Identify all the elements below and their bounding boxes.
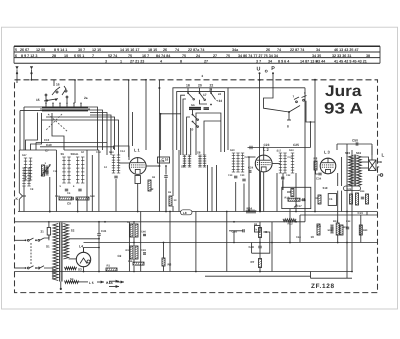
label C11 bbox=[53, 170, 58, 173]
svg-text:L 5: L 5 bbox=[89, 281, 94, 285]
svg-text:75: 75 bbox=[182, 54, 186, 58]
nested frame lower right 2 bbox=[140, 212, 142, 272]
wire x163 drop bbox=[163, 243, 165, 272]
svg-text:18 15: 18 15 bbox=[148, 48, 157, 52]
svg-text:8 9 7 12 3: 8 9 7 12 3 bbox=[21, 54, 37, 58]
resistor C15 bbox=[169, 196, 177, 206]
label C2 bbox=[118, 254, 122, 265]
coil S8 bbox=[197, 151, 202, 168]
resistor R27 box bbox=[282, 187, 311, 208]
svg-text:S5: S5 bbox=[61, 152, 65, 156]
wire x129 drop bbox=[128, 222, 130, 272]
wire left L-drop c bbox=[52, 113, 64, 150]
wire speaker top bbox=[362, 157, 369, 160]
svg-text:S10: S10 bbox=[230, 149, 235, 152]
svg-text:C45: C45 bbox=[101, 229, 107, 233]
resistor R18 pair bbox=[127, 221, 138, 237]
wire left col x49.8 bbox=[49, 177, 51, 212]
capacitor C45 bbox=[97, 221, 106, 272]
label 6 bbox=[73, 185, 75, 188]
svg-text:R1: R1 bbox=[107, 264, 111, 268]
svg-text:34 35: 34 35 bbox=[312, 54, 321, 58]
dot bus1 extra bbox=[49, 211, 235, 273]
wire left col x56.4 bbox=[55, 150, 57, 212]
wire frame top x147 bbox=[147, 130, 161, 212]
wire IF drop b bbox=[211, 167, 213, 212]
svg-text:18: 18 bbox=[186, 84, 190, 88]
svg-text:C18: C18 bbox=[301, 199, 306, 202]
svg-text:C16: C16 bbox=[159, 159, 165, 163]
svg-text:C5: C5 bbox=[329, 198, 333, 201]
svg-text:26 67: 26 67 bbox=[20, 48, 29, 52]
svg-text:C2: C2 bbox=[118, 254, 122, 258]
fuse 21 bbox=[41, 222, 51, 241]
wire top x233 link bbox=[221, 120, 234, 150]
wire x234 col bbox=[229, 231, 243, 244]
wire spk bbox=[360, 162, 369, 168]
bus wire x305 bbox=[304, 88, 306, 222]
bus wire B+ (y242.5) bbox=[84, 242, 378, 244]
wire left col x77.7 bbox=[77, 198, 79, 212]
label C22 bbox=[286, 174, 291, 177]
valve L1 electrodes base bbox=[135, 176, 140, 197]
svg-text:R8: R8 bbox=[314, 157, 318, 161]
svg-text:8: 8 bbox=[287, 125, 289, 129]
svg-text:ZF.128: ZF.128 bbox=[311, 283, 335, 290]
bus wire x315 bbox=[314, 80, 316, 212]
svg-text:6 55 1: 6 55 1 bbox=[74, 54, 84, 58]
wire drop x190.7 bbox=[190, 128, 192, 155]
wire x160.6b bbox=[158, 80, 160, 212]
svg-text:15: 15 bbox=[36, 98, 40, 102]
winding S4 bbox=[65, 277, 79, 283]
label R24 bbox=[246, 207, 256, 213]
terminal P bbox=[271, 66, 275, 75]
capacitor C25 bbox=[248, 122, 311, 149]
svg-text:S13: S13 bbox=[289, 149, 294, 152]
svg-text:28: 28 bbox=[52, 54, 56, 58]
wire x337 drop bbox=[337, 173, 339, 243]
dots buses 3 bbox=[271, 221, 297, 244]
svg-text:C22: C22 bbox=[286, 174, 291, 177]
wire x315 low bbox=[314, 212, 316, 222]
label C19 bbox=[228, 174, 233, 177]
wire left L-drop b bbox=[31, 113, 42, 150]
wire x283 drop bbox=[282, 173, 284, 190]
junction dot chassis top bbox=[314, 79, 316, 81]
svg-text:10: 10 bbox=[311, 235, 315, 239]
pilot lamp capsule bbox=[181, 210, 193, 215]
svg-text:84 74 84: 84 74 84 bbox=[156, 54, 171, 58]
wire x341 drop2 bbox=[341, 212, 343, 226]
wire frame F2b bbox=[224, 92, 226, 152]
wire heater row bbox=[78, 281, 103, 283]
wire L2 cathode 2 bbox=[260, 172, 262, 212]
svg-text:C11: C11 bbox=[53, 170, 58, 173]
wire left col 1 bbox=[18, 150, 20, 212]
wire primary top bbox=[48, 221, 53, 224]
svg-text:16: 16 bbox=[56, 83, 60, 87]
svg-text:C44: C44 bbox=[296, 236, 301, 239]
label C20 bbox=[240, 174, 245, 177]
capacitor C50 bbox=[337, 139, 372, 156]
wire L3 grid bbox=[316, 170, 319, 174]
wire x173 drop bbox=[172, 150, 174, 212]
wave-band switch S-I bbox=[36, 80, 90, 111]
resistor R12 bbox=[283, 219, 296, 226]
valve L2 bbox=[255, 147, 272, 172]
wire L2 region top bbox=[228, 130, 243, 150]
wire IF drop a bbox=[207, 165, 209, 212]
svg-text:52 74: 52 74 bbox=[108, 54, 118, 58]
svg-text:32 33 36 31: 32 33 36 31 bbox=[332, 54, 351, 58]
wire frame inner G2 bbox=[204, 121, 221, 155]
terminal U bbox=[257, 66, 261, 74]
wire staircase lowright bbox=[311, 276, 353, 278]
resistor R20 right bbox=[359, 225, 368, 235]
svg-text:S16: S16 bbox=[356, 151, 362, 155]
svg-text:S3: S3 bbox=[78, 267, 82, 271]
cap C33 sym bbox=[346, 227, 349, 229]
wire frame F5 bbox=[160, 113, 181, 150]
svg-text:34: 34 bbox=[219, 99, 223, 103]
dashed link fuse bbox=[15, 253, 21, 255]
antenna terminal K bbox=[16, 193, 27, 201]
svg-text:h: h bbox=[256, 227, 258, 231]
terminal O bbox=[265, 69, 268, 75]
wire frame F1 bbox=[173, 88, 228, 150]
winding S3 bbox=[65, 267, 83, 271]
nested frame lower right bbox=[205, 272, 311, 277]
resistor R1 bbox=[106, 264, 117, 272]
svg-text:3: 3 bbox=[105, 59, 107, 63]
coil S13 bbox=[109, 151, 120, 173]
mains switch top bbox=[25, 238, 44, 241]
wire right low x360 bbox=[360, 215, 362, 243]
wire x290 low bbox=[289, 209, 291, 244]
svg-text:6: 6 bbox=[15, 54, 17, 58]
svg-text:30 7: 30 7 bbox=[78, 48, 85, 52]
cap C9 pair bbox=[55, 192, 95, 206]
svg-text:C25: C25 bbox=[293, 143, 299, 147]
ground stub transformer bbox=[60, 282, 62, 291]
wire x134 drops bbox=[133, 221, 135, 272]
wave-band switch S-II contacts bbox=[186, 84, 222, 106]
label ZF.128 bbox=[311, 283, 335, 290]
label C8 bbox=[30, 188, 34, 191]
valve socket connection table bbox=[14, 46, 380, 63]
wire x166 drop bbox=[165, 179, 167, 212]
cap pair under S12 bbox=[242, 179, 245, 181]
svg-text:R10: R10 bbox=[285, 197, 290, 200]
svg-text:S19: S19 bbox=[323, 186, 328, 190]
label 12 bbox=[104, 166, 107, 169]
resistor R10 bbox=[285, 197, 307, 202]
label 2 above border bbox=[202, 74, 204, 78]
wire sw1 contact drops bbox=[45, 94, 68, 103]
resistor R9 bbox=[287, 189, 294, 197]
wire frame F2 bbox=[177, 92, 225, 152]
mains plug wires bbox=[15, 240, 26, 268]
wire top frame a bbox=[97, 107, 99, 150]
svg-text:C20: C20 bbox=[240, 174, 245, 177]
wire frame F6 bbox=[187, 117, 190, 155]
svg-text:75: 75 bbox=[226, 54, 230, 58]
svg-text:27 21 23: 27 21 23 bbox=[130, 59, 144, 63]
resistor R6 bbox=[162, 258, 172, 267]
resistor R5b bbox=[259, 228, 268, 238]
svg-text:S17: S17 bbox=[277, 150, 282, 153]
svg-text:20: 20 bbox=[198, 84, 202, 88]
label C13 bbox=[358, 211, 364, 215]
label R11 bbox=[0, 0, 1, 1]
svg-text:L: L bbox=[382, 153, 385, 158]
label C33 bbox=[346, 220, 351, 223]
label 24 bbox=[218, 92, 222, 96]
svg-text:16 7: 16 7 bbox=[142, 54, 149, 58]
wire x272 low bbox=[271, 222, 273, 272]
svg-text:26: 26 bbox=[266, 48, 270, 52]
svg-text:34 86 74 77 27 75 34 34: 34 86 74 77 27 75 34 34 bbox=[238, 54, 279, 58]
resistor R7 bbox=[251, 259, 262, 268]
capacitor C16 bbox=[160, 158, 172, 167]
svg-text:o: o bbox=[265, 69, 268, 75]
svg-text:C14: C14 bbox=[120, 150, 125, 153]
svg-text:41 45 42 9 45 43 21: 41 45 42 9 45 43 21 bbox=[334, 59, 367, 63]
wire IF drop c bbox=[216, 165, 218, 212]
svg-text:R20: R20 bbox=[363, 229, 368, 232]
wire left col x87 bbox=[86, 150, 88, 212]
svg-text:1: 1 bbox=[120, 59, 122, 63]
label S19 bbox=[323, 186, 328, 190]
svg-text:R7: R7 bbox=[251, 260, 255, 264]
svg-text:10: 10 bbox=[64, 54, 68, 58]
wire frame F3 bbox=[181, 95, 185, 155]
label C12 bbox=[96, 151, 101, 154]
svg-text:7: 7 bbox=[92, 54, 94, 58]
svg-text:C10: C10 bbox=[44, 138, 50, 142]
capacitor C49 bbox=[141, 249, 146, 254]
svg-text:93 A: 93 A bbox=[324, 101, 363, 118]
coil S8b hatch bbox=[203, 155, 206, 167]
junction dots bus bbox=[259, 211, 353, 273]
svg-text:L 3: L 3 bbox=[324, 150, 330, 155]
svg-text:C7: C7 bbox=[45, 149, 49, 153]
svg-text:S8: S8 bbox=[197, 151, 201, 155]
label C14 bbox=[120, 150, 125, 153]
resistor R13 bbox=[333, 220, 339, 235]
svg-text:S11: S11 bbox=[74, 153, 79, 156]
box C15r bbox=[328, 194, 336, 206]
coil S6b hatch bbox=[188, 155, 191, 167]
coil S12 bbox=[241, 153, 250, 172]
svg-text:22 87 74: 22 87 74 bbox=[290, 48, 305, 52]
dial lamp arrows L6 bbox=[107, 280, 119, 288]
wire switch drop x132 bbox=[129, 112, 133, 146]
label S7 bbox=[81, 151, 85, 154]
coil group S17/antenna primary bbox=[22, 143, 52, 186]
wire sw to fuse bbox=[44, 235, 49, 238]
wire P to pickup switch bbox=[264, 73, 290, 112]
mains switch bottom bbox=[25, 266, 44, 269]
bus wire right (y215) bbox=[300, 214, 378, 216]
wire x195.9 drop bbox=[195, 212, 197, 272]
wire L4 output bbox=[84, 247, 100, 253]
wire x347 dots bbox=[346, 211, 348, 244]
svg-text:8 9 6 4: 8 9 6 4 bbox=[278, 59, 290, 63]
svg-text:17: 17 bbox=[203, 93, 207, 97]
svg-text:C13: C13 bbox=[358, 211, 364, 215]
wire S17r drop bbox=[282, 181, 284, 191]
svg-text:U: U bbox=[257, 66, 261, 72]
label R3 bbox=[168, 191, 172, 194]
svg-text:23: 23 bbox=[209, 88, 213, 92]
svg-text:75: 75 bbox=[128, 54, 132, 58]
labels right cluster bbox=[311, 225, 333, 239]
wire L2 cathode bbox=[260, 172, 264, 212]
svg-text:5: 5 bbox=[15, 48, 17, 52]
cluster right caps bbox=[350, 190, 366, 205]
svg-text:S15: S15 bbox=[345, 151, 351, 155]
coil S13b bbox=[289, 149, 294, 173]
label 23 bbox=[209, 88, 213, 92]
coil S2x bbox=[277, 151, 287, 173]
wire grid cap drop bbox=[248, 157, 250, 212]
wire left col x98.9 bbox=[98, 150, 100, 212]
label C44 bbox=[296, 236, 301, 239]
svg-text:S14: S14 bbox=[55, 195, 60, 198]
wire frame inner G1 bbox=[183, 99, 186, 155]
svg-text:12 55: 12 55 bbox=[36, 48, 45, 52]
svg-text:8: 8 bbox=[180, 59, 182, 63]
svg-text:R16: R16 bbox=[128, 260, 133, 263]
bus wire ground (y271.5) bbox=[15, 271, 353, 273]
svg-text:P L6: P L6 bbox=[106, 281, 113, 285]
wire S10 drops bbox=[236, 182, 244, 212]
svg-text:C33: C33 bbox=[346, 220, 351, 223]
svg-text:L 1: L 1 bbox=[134, 148, 140, 153]
wire right low x367 bbox=[366, 212, 368, 216]
svg-text:8 9 14 1: 8 9 14 1 bbox=[54, 48, 67, 52]
svg-text:C17: C17 bbox=[288, 156, 293, 159]
frame around R5 bbox=[252, 232, 270, 253]
resistor R21 right bbox=[366, 194, 369, 204]
svg-text:P: P bbox=[271, 66, 275, 72]
capacitor C48b bbox=[249, 245, 262, 249]
svg-text:2a: 2a bbox=[84, 96, 88, 100]
transformer secondary S2 bbox=[63, 224, 74, 260]
wire x347x352 bbox=[347, 144, 352, 278]
svg-text:S17: S17 bbox=[22, 154, 27, 157]
svg-text:C19: C19 bbox=[228, 174, 233, 177]
small box b bbox=[255, 226, 261, 233]
label R2 bbox=[152, 176, 156, 179]
svg-text:C46: C46 bbox=[141, 231, 146, 234]
labels L2 coils bbox=[277, 150, 293, 160]
svg-text:L4: L4 bbox=[79, 245, 83, 249]
wire L1 plate right bbox=[146, 165, 160, 167]
wire U bus down bbox=[259, 73, 261, 211]
wire left drop from S-I bbox=[20, 107, 42, 150]
resistor R-L1 bbox=[148, 180, 154, 191]
wire x140 stub bbox=[140, 222, 142, 230]
title Jura 93 A bbox=[324, 83, 363, 118]
cap under S17r bbox=[281, 177, 284, 179]
svg-text:C49: C49 bbox=[141, 249, 146, 252]
resistor R8 bbox=[314, 157, 318, 171]
wire left L-drop a bbox=[26, 113, 38, 151]
terminal L bbox=[378, 153, 385, 163]
svg-text:C17: C17 bbox=[297, 204, 303, 208]
wire right x372 bbox=[371, 146, 373, 160]
cap C34 bbox=[316, 173, 322, 180]
svg-text:NS: NS bbox=[191, 104, 195, 107]
transformer core bbox=[60, 223, 62, 282]
svg-text:S7: S7 bbox=[81, 151, 85, 154]
wire x240 col bbox=[239, 222, 241, 243]
wire x128.7 lamp bbox=[128, 79, 130, 157]
svg-text:R: R bbox=[127, 221, 129, 224]
wire L2 top bbox=[263, 147, 265, 155]
svg-text:S2: S2 bbox=[71, 229, 75, 233]
capacitor C26 bbox=[232, 229, 245, 233]
svg-text:38: 38 bbox=[366, 54, 370, 58]
wire x341.6 bbox=[341, 157, 343, 212]
bus wire AVC (y211.5) bbox=[18, 211, 378, 213]
wire S2 to L4 bbox=[69, 259, 85, 273]
wire frame F4 bbox=[196, 113, 221, 155]
antenna arrow A1 bbox=[15, 66, 18, 83]
wire x277 drop bbox=[276, 173, 278, 212]
svg-text:14 15 16 17: 14 15 16 17 bbox=[120, 48, 139, 52]
svg-text:R9: R9 bbox=[287, 190, 291, 194]
svg-text:L8: L8 bbox=[183, 211, 187, 215]
electrolytic C24b bbox=[344, 186, 361, 191]
wire x296 drop bbox=[295, 173, 297, 212]
label 5 bbox=[60, 185, 62, 188]
rectifier valve L4 bbox=[76, 245, 90, 267]
wire x226.8 drop bbox=[226, 212, 228, 272]
wire L4 plate bbox=[91, 259, 96, 261]
wire L1 grid to coil bbox=[119, 162, 130, 164]
resistor R17 bbox=[340, 225, 349, 235]
resistor R19 pair bbox=[126, 246, 139, 259]
svg-text:43 44: 43 44 bbox=[316, 59, 326, 63]
svg-text:C4: C4 bbox=[67, 192, 71, 195]
coil S10 bbox=[230, 149, 240, 178]
wire L1 cathode bbox=[137, 196, 139, 212]
wire vertical x146 bbox=[145, 79, 147, 150]
cap C16 sym bbox=[164, 166, 167, 212]
svg-text:C34: C34 bbox=[316, 177, 322, 181]
cap under S13 bbox=[114, 176, 117, 211]
svg-text:S19: S19 bbox=[328, 229, 333, 232]
wire left col 2 bbox=[23, 186, 25, 212]
wire S2 top B+ bbox=[69, 238, 100, 240]
switch S-I mech link dashed bbox=[46, 114, 68, 132]
grid cap L2 bbox=[248, 156, 255, 158]
valve L3 bbox=[320, 150, 336, 174]
bus wire heater (y221.8) bbox=[15, 221, 306, 223]
antenna arrow A2 bbox=[30, 66, 33, 81]
svg-text:C9: C9 bbox=[67, 202, 71, 206]
pickup/radio switch bbox=[287, 91, 315, 129]
svg-text:3 7: 3 7 bbox=[256, 59, 261, 63]
wire y130 link bbox=[75, 129, 98, 131]
capacitor C24 bbox=[248, 166, 254, 173]
wire sw2 to transformer bbox=[44, 268, 53, 279]
coil S19b bbox=[330, 225, 333, 233]
